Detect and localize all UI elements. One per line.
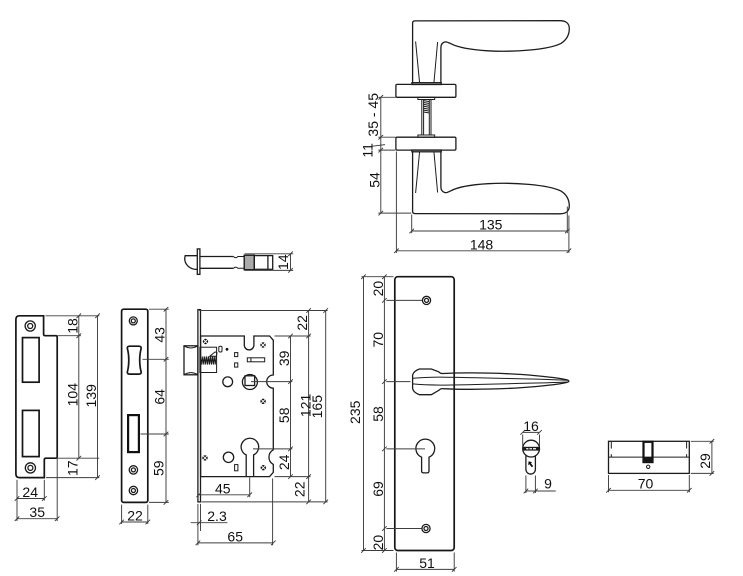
small square hole B <box>235 363 238 367</box>
faceplate latch cutout <box>127 346 141 374</box>
latch bolt assembly side view <box>185 249 294 275</box>
dim 14 <box>245 253 294 255</box>
svg-text:18: 18 <box>64 318 80 334</box>
top lever handle <box>412 21 569 85</box>
svg-text:64: 64 <box>151 389 167 405</box>
svg-text:51: 51 <box>419 555 435 571</box>
svg-text:69: 69 <box>370 481 386 497</box>
latch bolt head <box>184 346 198 375</box>
lower guide hole <box>223 452 233 462</box>
bottom lever handle (mirror) <box>412 150 569 214</box>
mortise lock body <box>184 308 328 545</box>
backplate with lever handle front view <box>347 274 569 571</box>
latch head <box>185 256 198 270</box>
latch flange plate <box>197 249 200 275</box>
faceplate screw holes bottom <box>129 466 137 474</box>
screw bottom-left <box>202 455 207 460</box>
backplate dims <box>362 276 394 278</box>
bottom rosette <box>396 137 456 150</box>
svg-text:35: 35 <box>29 504 45 520</box>
cylinder cam bar <box>523 447 539 451</box>
svg-text:45: 45 <box>215 480 231 496</box>
dim 2.3 plate thickness <box>197 504 199 545</box>
dim 45 backset <box>249 478 251 498</box>
svg-text:104: 104 <box>64 383 80 407</box>
svg-text:16: 16 <box>523 418 539 434</box>
svg-text:59: 59 <box>151 460 167 476</box>
key arrow mark <box>528 461 533 467</box>
lock case outline <box>201 336 274 477</box>
svg-text:148: 148 <box>470 236 494 252</box>
cylinder hole <box>241 438 259 476</box>
end grooves <box>610 441 612 448</box>
latch tail <box>254 256 272 270</box>
small square hole A <box>235 353 238 357</box>
latch spring box <box>200 347 217 372</box>
strike cutout 2 <box>23 410 40 456</box>
spindle and screws between rosettes <box>418 97 435 137</box>
strike plate <box>15 314 100 522</box>
screw mid-right <box>260 399 265 404</box>
small rect part <box>235 465 238 471</box>
strike cutout 1 <box>23 338 40 383</box>
dim 135 lever length <box>411 215 413 234</box>
backplate screw top <box>422 296 430 304</box>
svg-text:54: 54 <box>366 172 382 188</box>
screw top-left <box>203 339 208 344</box>
svg-text:58: 58 <box>370 406 386 422</box>
screw top-right <box>260 342 265 347</box>
latch shaft <box>200 256 234 258</box>
cam screw <box>647 465 650 468</box>
svg-text:29: 29 <box>697 453 713 469</box>
svg-text:165: 165 <box>309 395 325 419</box>
cylinder end view <box>520 418 555 494</box>
cylinder body below <box>526 455 536 474</box>
dim 16 <box>522 435 524 447</box>
svg-text:39: 39 <box>276 350 292 366</box>
svg-text:24: 24 <box>22 484 38 500</box>
svg-text:22: 22 <box>294 315 310 331</box>
screw bottom-right <box>261 465 266 470</box>
svg-text:17: 17 <box>64 460 80 476</box>
svg-text:235: 235 <box>347 400 363 424</box>
lock front plate <box>198 310 201 502</box>
handle neck octagon <box>413 369 569 395</box>
dim 29 <box>691 440 714 442</box>
svg-text:9: 9 <box>544 476 552 492</box>
svg-text:2.3: 2.3 <box>207 508 227 524</box>
svg-text:20: 20 <box>370 535 386 551</box>
svg-text:70: 70 <box>370 332 386 348</box>
strike screw hole top <box>25 321 35 331</box>
svg-text:20: 20 <box>370 281 386 297</box>
faceplate screw hole top <box>129 317 137 325</box>
strike dims <box>46 315 100 317</box>
spindle square block <box>244 255 254 270</box>
svg-text:139: 139 <box>83 384 99 408</box>
svg-text:65: 65 <box>227 528 243 544</box>
svg-text:35 - 45: 35 - 45 <box>365 93 381 137</box>
pivot dot <box>226 348 229 351</box>
svg-text:11: 11 <box>359 143 375 158</box>
backplate screw bottom <box>422 524 430 532</box>
svg-text:58: 58 <box>276 407 292 423</box>
small lever part <box>219 346 222 352</box>
svg-text:22: 22 <box>127 507 143 523</box>
dim 70 <box>608 475 610 492</box>
faceplate <box>119 307 169 524</box>
top rosette <box>396 84 456 97</box>
dim 148 overall length <box>395 152 397 253</box>
svg-text:135: 135 <box>479 216 503 232</box>
faceplate dims <box>149 308 169 310</box>
latch spring <box>201 356 216 364</box>
svg-text:70: 70 <box>638 476 654 492</box>
dim 9 <box>525 476 527 494</box>
spindle follower <box>242 375 257 390</box>
backplate cylinder hole <box>416 439 435 473</box>
svg-text:14: 14 <box>275 254 291 270</box>
dim 11 rosette thickness <box>372 145 386 147</box>
svg-text:22: 22 <box>291 481 307 497</box>
lock dims right side <box>199 310 327 312</box>
handle dimensions <box>359 93 571 253</box>
cylinder cam <box>644 442 653 462</box>
spring retainer wedge <box>210 352 217 356</box>
dim 35-45 spindle length <box>378 96 395 98</box>
dim 65 lock depth <box>272 479 274 546</box>
handle pair side view <box>396 21 569 214</box>
svg-text:43: 43 <box>151 327 167 343</box>
faceplate deadbolt cutout <box>128 415 139 452</box>
euro profile cylinder side view <box>606 439 714 493</box>
guide hole <box>223 377 233 387</box>
svg-text:24: 24 <box>276 454 292 470</box>
adjuster slot <box>247 358 264 362</box>
strike screw hole bottom <box>25 463 35 473</box>
